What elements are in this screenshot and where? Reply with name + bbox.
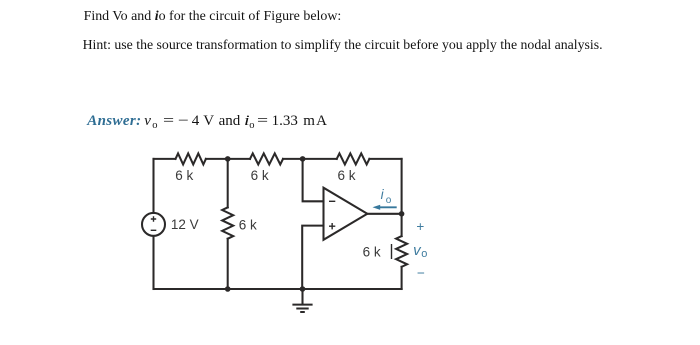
wire middle branch bottom — [227, 239, 229, 289]
op-amp minus input sign — [329, 200, 335, 202]
wire left rail bottom — [152, 236, 154, 289]
wire noninverting input — [302, 226, 323, 289]
node dot bottom B — [300, 286, 306, 292]
answer line — [0, 0, 1, 1]
svg-text:o: o — [386, 195, 392, 206]
wire op-amp output — [367, 213, 401, 215]
voltage source V1 12V circle — [142, 213, 165, 236]
io current arrow blue — [373, 205, 397, 210]
ground symbol — [292, 289, 312, 312]
resistor R4 6k middle vertical — [222, 207, 233, 238]
svg-text:−: − — [417, 265, 425, 280]
op-amp plus input sign — [329, 223, 335, 229]
wire right rail bottom — [401, 267, 403, 289]
resistor R5 6k right vertical — [396, 236, 407, 267]
svg-text:6 k: 6 k — [175, 168, 193, 183]
op-amp U1 triangle — [324, 188, 368, 240]
svg-text:12 V: 12 V — [171, 217, 199, 232]
resistor R3 6k top-right — [337, 153, 370, 164]
svg-text:+: + — [416, 219, 424, 234]
wire inverting input — [303, 159, 324, 201]
wire middle branch top — [227, 159, 229, 208]
node dot output — [399, 211, 405, 217]
wire top rail segment 2 — [206, 158, 250, 160]
node dot top A — [225, 156, 231, 162]
title line — [84, 9, 342, 25]
resistor R2 6k top-middle — [250, 153, 283, 164]
wire right rail top — [401, 159, 403, 236]
current bar marker left of R5 — [391, 244, 393, 259]
wire bottom rail — [154, 288, 402, 290]
svg-text:6 k: 6 k — [251, 168, 269, 183]
V1 plus sign — [151, 216, 156, 221]
wire top rail segment 4 — [369, 158, 401, 160]
wire top rail segment 1 — [154, 158, 176, 160]
V1 minus sign — [151, 229, 157, 231]
resistor R1 6k top-left — [176, 153, 206, 164]
svg-text:o: o — [421, 248, 427, 260]
svg-text:6 k: 6 k — [363, 244, 381, 259]
node dot top B — [300, 156, 306, 162]
wire top rail segment 3 — [283, 158, 337, 160]
svg-text:i: i — [381, 187, 385, 202]
svg-text:6 k: 6 k — [338, 168, 356, 183]
wire left rail top — [152, 159, 154, 213]
svg-text:6 k: 6 k — [239, 217, 257, 232]
node dot bottom A — [225, 286, 231, 292]
hint line — [83, 37, 603, 53]
